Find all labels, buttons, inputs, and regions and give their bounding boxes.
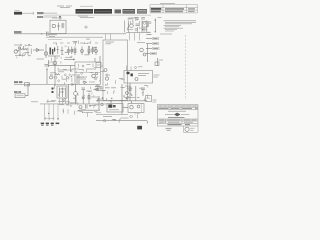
component cluster right mid [123,85,150,100]
pin label 1 text [153,38,157,39]
capacitor C8 [82,88,86,95]
wire bus y120.7 [96,120,147,122]
diode CR1 [37,48,40,51]
wire stub pin3 [146,48,152,50]
battery BT1 box [15,94,25,98]
value label left of connector bus [31,101,38,103]
meter M2 dial2 [137,105,140,108]
node label lower [14,91,21,93]
meter M1 box [107,104,123,113]
net name header block 5 [137,9,147,14]
wire connector drop 3 [53,104,55,121]
wire bus y103.9 [40,103,107,105]
wire stub pin2 [146,43,152,45]
title block frame [157,105,198,126]
amplifier A1 box [75,62,101,84]
wire tap x100 [99,56,101,62]
transistor Q7 [95,47,98,56]
wire vertical x99 [98,96,100,110]
value label above U1 [52,17,62,19]
value label left mid [50,72,56,74]
transistor Q5 [67,47,70,56]
resistor R7 [95,86,100,87]
value label under wire [84,112,93,114]
pin label 3 text [153,48,158,49]
node SIG-B label [37,12,57,14]
pin label 2 text [153,43,157,44]
inner partition A1 [75,72,101,74]
resistor R8 ladder rung1 [59,88,61,98]
capacitor C10 [155,62,159,66]
resistor R6 on wire [25,83,30,86]
ground hook right end [147,121,148,124]
resistor R4 [88,47,90,56]
junction node E [27,84,28,85]
meter M2 dial [130,106,133,109]
wire entry stubs into module A2 [106,33,140,41]
value label above top-left block [15,9,20,11]
value label above revision table [160,2,175,4]
resistor R3 [74,47,76,56]
wire vertical x122 [121,84,123,114]
pin label P1-1 [41,123,44,126]
wire vertical x28 [27,84,29,96]
component cluster top row [57,39,97,55]
wire center bus y37 [46,36,103,38]
revision table row text 1 [151,8,195,10]
wire connector drop 2 [48,104,50,121]
node label GAIN left [14,81,22,83]
pin label 3 [153,47,160,49]
resistor R2 [22,49,28,51]
value label inside battery BT1 [17,95,24,97]
value label small [89,105,96,107]
value label right header [160,33,172,35]
pin label 1 [153,37,159,39]
capacitor C11 [141,88,145,96]
transistor Q8 [53,56,57,68]
revision table [150,5,198,13]
transistor Q14 inside A2 [105,74,108,81]
wire tap x55 down [54,68,56,86]
value label inside A1 lower [89,81,95,83]
transistor Q15 [140,48,144,52]
value label dense center top [72,68,93,70]
component cluster mid-left extra [49,56,76,85]
node arrow to notes [154,18,156,32]
value label [50,61,55,63]
transistor Q13 [96,88,99,91]
stamp cell below title block [184,126,199,132]
value label near R11 [96,86,103,88]
component cluster below center [75,105,102,117]
capacitor C15 left cluster [23,46,25,49]
node SIG-C label [37,16,57,18]
transistor Q2 cluster verticals [129,21,147,33]
value label above arrow [65,56,72,58]
wire bus y100.8 [96,100,147,102]
value label above M boxes [99,98,104,100]
connector J2 dark marks [52,88,54,94]
net name header block 3 [115,9,122,13]
wire stub M2 up [131,101,133,104]
relay K2 box top right [124,71,153,84]
junction node on bus y100.8 b [121,100,122,101]
transistor Q6 [81,47,84,56]
transistor Q17 inside K2 [135,78,138,81]
capacitor C4 verticals [20,48,31,56]
value label top small text [57,6,72,7]
pin label P1-3 [51,123,54,126]
transistor Q22 hanging [71,47,73,55]
value label inside M1 [109,109,119,111]
component marks above relay K2 [127,66,143,71]
transistor Q10 inside A1 [95,72,97,74]
company logo [165,113,190,117]
wire ladder taps to bus [60,98,66,104]
junction dot node D [59,16,61,18]
value label left cluster [26,45,32,47]
transistor Q1 inside U1 [52,24,55,27]
value label above header block2 [80,5,93,7]
pin label P1-2 [46,123,49,126]
value label inside K2 [138,74,149,76]
value label near Q13 [91,96,98,98]
pin label P1-4 [56,123,60,125]
net name header block 1 [76,9,94,14]
wire stub M1 up [110,101,112,104]
transistor Q16 [143,53,146,56]
wire vertical x46 [45,44,47,58]
notes text block [164,21,197,31]
module A2 big box [103,40,128,101]
capacitor C14 [98,88,102,91]
transistor Q23 vertical in oscillator cluster [124,21,126,33]
capacitor C13 [82,96,84,104]
wire Q-cluster bottom [126,32,150,34]
wire and component cluster center [50,67,105,105]
component marks inside amplifier A1 [79,64,94,70]
wire vertical x47 [46,69,48,85]
value label right mid [125,85,131,87]
capacitor C5 [45,65,49,67]
capacitor C7 inside A1 [77,74,79,84]
capacitor C6 [61,47,64,56]
relay K1 small box [143,22,148,28]
wire vertical x147.5 [147,44,149,62]
node label right end [147,34,152,36]
wire BT1 to x28 [25,95,28,97]
transistor Q18 [101,103,103,105]
value label mid [37,58,45,60]
wire stub pin4 [146,53,150,55]
meter M2 divider [141,104,143,113]
resistor R12 right mid [129,83,131,101]
wire vertical x48.5 lower [48,60,50,67]
wire bus y114.5 [96,114,128,116]
wire y56 [48,55,60,57]
value label right [121,117,129,119]
component cluster oscillator extra marks [128,18,149,33]
wire sub-bus y39.6 [48,39,62,41]
value label near arrow top [158,17,162,19]
value label above Q-cluster [128,17,139,19]
transistor Q12 bottom center [74,84,78,104]
wire to diode [33,49,44,51]
value label below header block1 [78,15,88,17]
value label inside A1 [80,77,87,79]
capacitor C1 inside U1 [57,23,60,31]
wire vertical x157.5 lower [157,58,159,66]
resistor R1 inside U1 [62,23,65,28]
terminal block TB1 left of module [96,63,101,68]
title block row4 text [159,121,193,123]
sheet note below block [166,128,172,130]
wire y110.2 [78,109,100,111]
value label inside FL1 [59,89,65,92]
resistor R11 [88,93,90,104]
drawing number text [168,124,191,126]
wire connector drop 1 [44,104,46,121]
node label left of bus [14,31,22,33]
capacitor C12 [86,105,88,109]
value label clump left of bus [49,35,58,37]
value label right of F1 [153,100,157,102]
wire main bus y33.5 [14,33,126,35]
value label right of C8 [86,90,92,92]
value label right of relay K2 [154,75,160,77]
node label x47 arrow [46,68,48,70]
capacitor C16 hanging [57,46,59,54]
transistor Q19 right of P1 [76,96,82,109]
wire tap x95 [94,58,96,62]
wire stub below M2 [134,112,136,114]
connector J4 dark scribble inside M1 [108,104,115,107]
value label above connector [47,100,65,102]
component cluster inside module A2 [105,79,125,100]
node SIG-A label top-left [14,12,33,15]
signal flow arrow [64,58,76,60]
pin label 2 [153,42,159,44]
value label near x157 [159,59,164,61]
pin label 4 [151,52,157,54]
title block row1 text [158,105,197,107]
inspection stamp circle [185,127,195,131]
wire vertical x135.8 [135,86,137,101]
pin wires into P1 blobs [45,117,53,120]
meter M2 box [128,104,144,113]
wire long vertical right x185.5 [185,35,187,100]
value label under bus [103,116,112,118]
wire stub pin1 [146,38,152,40]
value label inside A2 [105,74,110,76]
component cluster left input [16,44,31,58]
ammeter M0 left input cluster label [14,44,20,46]
transistor Q11 [50,76,53,79]
value label above bus [125,97,136,99]
wire vertical x68.5 [68,84,70,104]
title block row3 text [159,119,197,121]
title text above logo [168,110,186,112]
transistor Q3 [14,50,17,53]
filter FL1 box [57,86,67,98]
transistor Q20 [126,92,129,95]
net name header block 4 [123,9,136,14]
transistor Q9 inside A1 [92,74,96,78]
wire y84.3 long [14,83,75,85]
value label small marks right of U1 [84,26,88,30]
capacitor C9 right of A2 [137,42,145,44]
pin number labels above blobs [44,117,55,119]
node label stamp dark [137,126,142,130]
resistor R10 ladder rung3 [65,88,67,98]
pin label 4 text [151,53,155,54]
title block row2 text [158,107,197,109]
transistor Q2 [130,24,134,28]
fuse F1 small box [146,96,152,102]
component cluster oscillator area [128,17,151,32]
capacitor C2 on bus [47,32,49,37]
junction arrow on bus [41,33,44,35]
value label inside A2 top [106,42,115,44]
wire connector drop 4 with ground arrow [57,104,59,121]
resistor R9 ladder rung2 [62,88,64,98]
value labels row above comps [53,42,98,44]
transistor Q24 below TB1 [104,69,107,72]
wire tap x70.5 [70,66,72,72]
wire node D down [59,17,61,20]
wire header underline [44,14,151,16]
connector J3 dark marks inside K2 [127,72,133,77]
revision table row text 2 [151,11,195,13]
transistor Q4 [44,52,47,55]
resistor R13 hanging [92,47,94,55]
component cluster connector area [48,99,72,114]
value label under cluster [15,55,25,57]
connector J1 dark cluster [50,48,56,55]
resistor R5 left mid [55,74,60,75]
value labels bottom area [103,114,139,123]
wire y65.5 [48,65,75,67]
net name header block 2 [94,9,112,14]
capacitor C3 [136,24,140,26]
wire M1-M2 [123,107,128,109]
title text under logo [168,117,185,119]
junction node on bus y100.8 [110,100,111,101]
value label above box2 [58,70,68,72]
diode CR2 inside A1 [84,81,87,84]
value label above bus right [80,17,94,19]
oscillator U1 box [50,20,66,33]
value label under Q2 [127,28,133,30]
transistor Q21 left cluster [18,47,20,49]
wire TB1 to module [101,65,103,67]
